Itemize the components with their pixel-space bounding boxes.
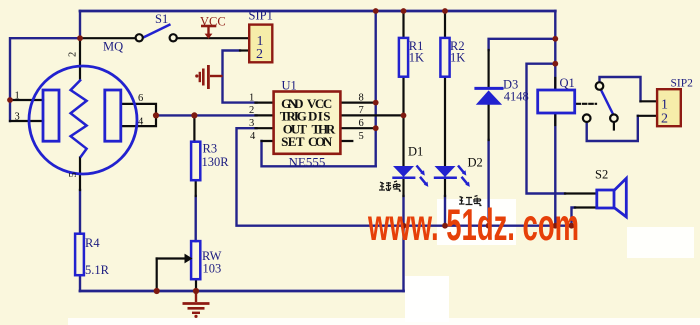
svg-text:Q1: Q1 bbox=[560, 76, 575, 90]
svg-text:130R: 130R bbox=[202, 155, 230, 169]
svg-text:S2: S2 bbox=[595, 168, 608, 182]
svg-text:5: 5 bbox=[68, 172, 79, 177]
svg-text:D1: D1 bbox=[408, 145, 423, 159]
svg-text:R4: R4 bbox=[85, 236, 100, 250]
svg-text:4148: 4148 bbox=[504, 90, 529, 104]
svg-text:5.1R: 5.1R bbox=[85, 263, 110, 277]
svg-text:S1: S1 bbox=[155, 12, 168, 26]
svg-text:2: 2 bbox=[661, 112, 668, 127]
svg-text:3: 3 bbox=[249, 118, 254, 129]
svg-text:1: 1 bbox=[249, 92, 254, 103]
svg-text:VCC: VCC bbox=[200, 15, 226, 29]
svg-text:U1: U1 bbox=[282, 79, 297, 93]
svg-text:4: 4 bbox=[250, 131, 256, 142]
svg-text:2: 2 bbox=[249, 105, 254, 116]
svg-text:D2: D2 bbox=[468, 156, 483, 170]
svg-text:www. 51dz. com: www. 51dz. com bbox=[367, 201, 579, 250]
svg-text:1: 1 bbox=[15, 91, 20, 102]
svg-text:5: 5 bbox=[359, 131, 364, 142]
svg-text:1: 1 bbox=[661, 98, 668, 113]
svg-text:NE555: NE555 bbox=[289, 155, 326, 170]
svg-text:2: 2 bbox=[256, 47, 263, 62]
svg-text:1K: 1K bbox=[409, 51, 424, 65]
svg-text:SIP2: SIP2 bbox=[671, 78, 694, 90]
svg-text:103: 103 bbox=[203, 262, 222, 276]
svg-text:R3: R3 bbox=[203, 142, 218, 156]
svg-text:2: 2 bbox=[68, 52, 79, 57]
svg-text:MQ: MQ bbox=[103, 40, 123, 54]
svg-text:7: 7 bbox=[359, 105, 364, 116]
svg-text:1K: 1K bbox=[450, 51, 465, 65]
svg-text:6: 6 bbox=[138, 93, 143, 104]
svg-text:3: 3 bbox=[15, 112, 20, 123]
svg-text:6: 6 bbox=[359, 118, 364, 129]
svg-text:CON: CON bbox=[308, 134, 333, 149]
svg-text:SIP1: SIP1 bbox=[249, 9, 273, 23]
svg-text:SET: SET bbox=[281, 134, 305, 149]
svg-text:8: 8 bbox=[359, 92, 364, 103]
svg-text:4: 4 bbox=[138, 117, 144, 128]
